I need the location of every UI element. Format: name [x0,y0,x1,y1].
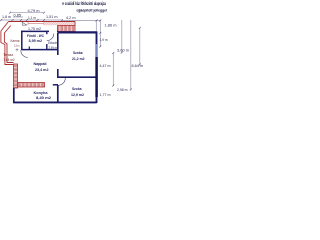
wall center vertical mid [57,69,59,78]
wall right light segment [95,44,97,57]
wall top bathroom [21,30,58,32]
svg-text:1,1 m: 1,1 m [28,16,36,20]
svg-text:újjáépített jelleggel: újjáépített jelleggel [77,8,108,13]
svg-text:Szoba: Szoba [72,87,82,91]
wall center vertical upper [57,33,59,55]
svg-text:A családi ház földszinti alapr: A családi ház földszinti alaprajza [62,1,106,6]
hatched new wall: top comb [58,26,76,32]
svg-text:Nappali: Nappali [34,62,47,66]
wall bath bottom [21,49,58,51]
floor plan drawing [0,0,145,108]
svg-text:3,95 m2: 3,95 m2 [29,39,43,43]
dim line top (4,79 m) [1,13,101,31]
right dim ticks [99,20,141,91]
svg-text:1,77 m: 1,77 m [100,93,111,97]
outer red wall: outer contour [1,22,75,65]
svg-text:4,47 m: 4,47 m [100,64,111,68]
cross mark [16,48,19,51]
svg-text:2,95 m2: 2,95 m2 [49,46,59,50]
svg-text:4,2 m: 4,2 m [66,16,76,20]
svg-text:Konyha: Konyha [34,91,49,95]
top wall window middle line [28,22,44,25]
wall left lower [13,88,15,103]
svg-text:1,86 m: 1,86 m [105,24,117,28]
wall konyha stub [53,84,58,86]
door arc bath to nappali [21,50,28,57]
svg-text:8,64 m: 8,64 m [132,64,144,68]
svg-text:3,00 m: 3,00 m [117,49,129,53]
svg-text:Előszoba: Előszoba [48,41,59,45]
svg-text:1,51 m: 1,51 m [46,15,58,19]
wall bath left [21,31,23,50]
right side dim lines [100,20,140,90]
svg-text:Terasz: Terasz [3,53,13,57]
svg-text:Szoba: Szoba [73,51,83,55]
wall bath right upper [46,31,48,34]
svg-text:1,8 m: 1,8 m [2,15,11,19]
svg-text:21,2 m2: 21,2 m2 [72,57,85,61]
wall divider szoba/szoba [58,76,97,78]
wall bath bottom jog [28,47,30,51]
wall bottom [13,101,97,103]
svg-text:Fürdő - WC: Fürdő - WC [27,34,44,38]
svg-text:23,4 m2: 23,4 m2 [35,68,49,72]
outer red wall: inner contour [4,26,13,63]
svg-text:0,85: 0,85 [14,13,22,17]
wall top szoba thick [58,31,97,33]
svg-text:7,84 m2: 7,84 m2 [3,58,15,62]
svg-text:2,1m: 2,1m [14,44,20,48]
dim ticks top [0,12,97,22]
svg-text:Kamra: Kamra [11,39,20,43]
wall center vertical lower [57,85,59,103]
door arc szoba lower [58,78,65,85]
wall right dark overlay [95,57,98,97]
outer red wall: hatch upper right part [44,22,75,25]
hatched new wall: L vertical [14,64,18,88]
wall bath right lower [46,44,48,50]
svg-text:1,9 m: 1,9 m [100,38,108,42]
hatched new wall: L horizontal [18,83,45,88]
svg-text:8,40 m2: 8,40 m2 [36,96,51,100]
svg-text:1,75 m2: 1,75 m2 [28,27,41,31]
svg-text:4,79 m: 4,79 m [28,9,40,13]
svg-text:2,98 m: 2,98 m [117,88,128,92]
door arc bath to hall [47,34,54,41]
wall right [96,31,98,103]
svg-text:12,9 m2: 12,9 m2 [71,93,84,97]
outer red wall: hollow fill [1,22,75,65]
top wall entrance door symbol [22,22,27,25]
